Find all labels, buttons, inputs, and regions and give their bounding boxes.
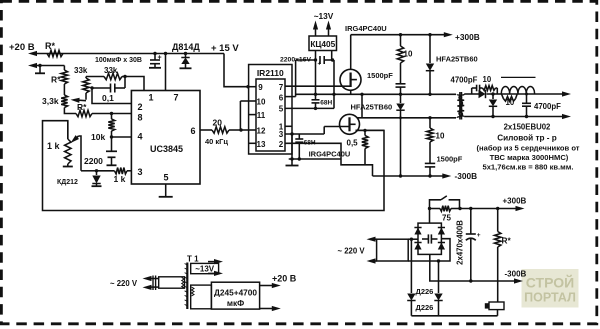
wire output bottom bbox=[464, 116, 564, 118]
T1 winding ~13V box bbox=[191, 263, 219, 273]
wire comp rail bbox=[86, 76, 104, 78]
capacitor 1500pF (lower) bbox=[425, 162, 435, 164]
resistor R* (upper divider) bbox=[63, 66, 65, 71]
svg-text:33k: 33k bbox=[74, 66, 88, 75]
zener Д814Д bbox=[185, 54, 187, 58]
diode Д226 (lower) bbox=[438, 261, 440, 293]
arrow mains N bbox=[375, 260, 377, 262]
transformer TR primary bbox=[457, 95, 462, 117]
ground (Д814Д) bbox=[180, 67, 192, 69]
arrow ~13V out 1 bbox=[208, 261, 217, 263]
arrow ~13V feed right bbox=[328, 27, 330, 36]
svg-text:T 1: T 1 bbox=[187, 255, 199, 264]
svg-text:Д814Д: Д814Д bbox=[172, 42, 200, 52]
svg-text:10: 10 bbox=[257, 98, 266, 107]
pin 10 stub bbox=[240, 100, 256, 102]
svg-text:4700pF: 4700pF bbox=[534, 102, 561, 111]
svg-text:4700pF: 4700pF bbox=[451, 76, 478, 85]
svg-text:3: 3 bbox=[279, 130, 284, 139]
wire secondary top bbox=[464, 93, 478, 95]
capacitor 4700pF (output) bbox=[526, 94, 528, 103]
transformer TR secondary bbox=[459, 95, 464, 116]
wire КЦ405 left leg bbox=[315, 51, 317, 61]
wire +20V out bbox=[260, 285, 273, 287]
svg-text:~13V: ~13V bbox=[314, 11, 334, 21]
transistor Q2 IRG4PC40U bbox=[340, 114, 360, 134]
diode output rectifier 2 bbox=[492, 94, 494, 99]
wire 0V out bbox=[260, 308, 273, 310]
node 75 left bbox=[428, 207, 431, 210]
wire +300V out bbox=[460, 208, 517, 210]
svg-text:2200: 2200 bbox=[84, 156, 103, 166]
node pin9 bbox=[246, 85, 249, 88]
wire HO gate (pin7) bbox=[285, 85, 351, 87]
wire pin3 current sense bbox=[81, 170, 97, 172]
wire VB drop bbox=[315, 60, 317, 94]
svg-text:10: 10 bbox=[436, 132, 445, 141]
diode HFA25TB60 (upper) bbox=[429, 35, 431, 63]
svg-text:100мкФ x 30В: 100мкФ x 30В bbox=[95, 57, 142, 64]
svg-text:HFA25TB60: HFA25TB60 bbox=[351, 103, 393, 112]
node КД212 bbox=[95, 169, 98, 172]
node pin4 bbox=[110, 135, 113, 138]
svg-text:+: + bbox=[477, 232, 481, 239]
wire +15V to UC3845 pin7 bbox=[165, 54, 167, 91]
rectifier block Д245+4700мкФ bbox=[211, 282, 259, 309]
svg-text:20: 20 bbox=[213, 118, 223, 128]
svg-text:ТВС марка 3000НМС): ТВС марка 3000НМС) bbox=[490, 153, 569, 162]
arrow ~13V feed left bbox=[315, 27, 317, 36]
node diode top bbox=[428, 33, 431, 36]
resistor 10 (snubber RC) bbox=[480, 87, 483, 89]
transformer T1 primary bbox=[159, 277, 185, 288]
ground (1 k) bbox=[63, 166, 73, 168]
svg-text:2x150EBU02: 2x150EBU02 bbox=[504, 122, 551, 131]
wire output top line bbox=[502, 93, 565, 95]
svg-text:6: 6 bbox=[190, 126, 195, 136]
svg-text:1500pF: 1500pF bbox=[367, 71, 393, 80]
wire +15V to IR2110 pin9 bbox=[224, 54, 249, 87]
svg-text:СТРОЙ: СТРОЙ bbox=[526, 274, 574, 291]
filter box bbox=[377, 239, 409, 261]
node snubber top bbox=[399, 33, 402, 36]
svg-text:68H: 68H bbox=[320, 100, 332, 107]
svg-text:+20 В: +20 В bbox=[272, 274, 297, 284]
pin 12 stub bbox=[240, 129, 256, 131]
node 75 right bbox=[458, 207, 461, 210]
node shunt top bbox=[363, 129, 366, 132]
arrow mains L bbox=[375, 238, 377, 240]
svg-text:1 k: 1 k bbox=[114, 174, 126, 184]
svg-text:9: 9 bbox=[258, 83, 263, 92]
wire VB from pin6 bbox=[285, 96, 296, 98]
resistor 33k (feedback) bbox=[104, 73, 122, 79]
diode HFA25TB60 (lower) bbox=[400, 94, 402, 103]
svg-text:+ 15 V: + 15 V bbox=[211, 43, 239, 54]
capacitor 1500pF (upper) bbox=[396, 83, 406, 85]
svg-text:7: 7 bbox=[279, 83, 284, 92]
bridge diode bottom-left bbox=[414, 243, 421, 250]
svg-text:R*: R* bbox=[77, 102, 87, 112]
diode Д226 (upper) bbox=[410, 239, 412, 293]
svg-text:1: 1 bbox=[148, 93, 153, 103]
wire VCC drop bbox=[291, 134, 293, 159]
trimmer 1k wiper arrow bbox=[79, 136, 82, 171]
svg-text:40 кГц: 40 кГц bbox=[205, 137, 228, 146]
bridge center capacitor bbox=[422, 238, 428, 240]
svg-text:5: 5 bbox=[279, 105, 284, 114]
node cap right bbox=[331, 58, 334, 61]
wire Q1 collector bbox=[350, 35, 352, 70]
capacitor 100мкФ x 30В bbox=[154, 54, 156, 60]
transformer TR core bbox=[459, 92, 461, 120]
node VCC bbox=[290, 132, 293, 135]
wire precharge bottom bbox=[411, 315, 497, 317]
wire primary-bottom bus bbox=[357, 117, 456, 119]
svg-text:IR2110: IR2110 bbox=[257, 68, 284, 78]
svg-text:10: 10 bbox=[404, 50, 413, 59]
wire output to lower collector bbox=[361, 94, 363, 118]
svg-text:13: 13 bbox=[257, 140, 266, 149]
svg-text:2: 2 bbox=[279, 140, 284, 149]
capacitor 2200 bbox=[111, 137, 113, 151]
resistor R* (to Vref) bbox=[76, 110, 92, 116]
node cap left bbox=[314, 58, 317, 61]
svg-text:~13V: ~13V bbox=[195, 265, 215, 274]
T1 mains bars bbox=[152, 276, 154, 291]
svg-text:+: + bbox=[318, 62, 322, 68]
node Д226 tap 2 bbox=[437, 259, 440, 262]
svg-text:IRG4PC40U: IRG4PC40U bbox=[309, 150, 351, 159]
wire VB right drop bbox=[333, 60, 335, 94]
driver IR2110 inner box bbox=[256, 79, 285, 151]
svg-text:Д245+4700: Д245+4700 bbox=[214, 288, 257, 298]
fuse box bbox=[489, 302, 504, 310]
node HFA bottom bbox=[399, 174, 402, 177]
node pin7 supply junction bbox=[164, 52, 167, 55]
wire AC1 bbox=[408, 238, 418, 240]
svg-text:12: 12 bbox=[257, 127, 266, 136]
svg-text:+300В: +300В bbox=[503, 197, 527, 206]
wire COM line bbox=[289, 158, 341, 160]
pin 13 stub bbox=[249, 142, 256, 144]
svg-text:11: 11 bbox=[257, 111, 266, 120]
resistor 75 (soft start) bbox=[430, 208, 441, 210]
rectifier КЦ405 box bbox=[309, 36, 337, 51]
svg-text:6: 6 bbox=[279, 93, 284, 102]
node output-emitter bbox=[360, 93, 363, 96]
node gnd tap bbox=[38, 64, 41, 67]
node pin6 out bbox=[239, 128, 242, 131]
node diode-output bbox=[428, 93, 431, 96]
node R* top bbox=[496, 207, 499, 210]
svg-text:2x470x400В: 2x470x400В bbox=[455, 220, 464, 265]
svg-text:4: 4 bbox=[137, 132, 142, 142]
svg-text:0,1: 0,1 bbox=[102, 93, 114, 103]
wire КЦ405 right leg bbox=[331, 51, 333, 61]
transformer T1 core bbox=[186, 263, 188, 310]
wire current-sense loop bbox=[43, 121, 385, 211]
trimmer 1 k bbox=[67, 121, 69, 139]
wire pin2 COM bbox=[285, 143, 373, 176]
svg-text:ПОРТАЛ: ПОРТАЛ bbox=[524, 291, 576, 305]
driver U2 IR2110 outer box bbox=[249, 65, 292, 155]
wire VB bus bbox=[296, 93, 456, 95]
resistor 10 (upper snubber) bbox=[400, 35, 402, 46]
svg-text:10: 10 bbox=[483, 75, 492, 84]
wire +300V rail bbox=[351, 34, 445, 36]
svg-text:8: 8 bbox=[137, 113, 142, 123]
wire pin2 feedback bbox=[92, 88, 131, 104]
bridge diode top-right bbox=[438, 228, 445, 235]
svg-text:5: 5 bbox=[163, 173, 168, 183]
resistor R* (series +20V) bbox=[47, 50, 63, 56]
ground (КД212) bbox=[92, 185, 102, 187]
arrow ~13V out 2 bbox=[208, 272, 217, 274]
wire VS from pin5 bbox=[285, 107, 334, 109]
T1 winding secondary box bbox=[191, 285, 212, 309]
node D814D junction bbox=[184, 52, 187, 55]
ground (pin5) bbox=[165, 184, 167, 197]
op-amp U1 UC3845 box bbox=[131, 91, 200, 185]
pot wiper arrow bbox=[76, 99, 86, 102]
svg-text:КЦ405: КЦ405 bbox=[310, 39, 335, 49]
node 100uF junction bbox=[153, 52, 156, 55]
wire +20V rail with left arrow bbox=[33, 53, 62, 55]
svg-text:+20 В: +20 В bbox=[9, 42, 35, 53]
svg-text:~ 220 V: ~ 220 V bbox=[110, 279, 138, 288]
node after diode bbox=[491, 92, 494, 95]
wire -300V rail bbox=[373, 175, 444, 177]
svg-text:UC3845: UC3845 bbox=[150, 144, 183, 154]
svg-text:~ 220 V: ~ 220 V bbox=[338, 247, 366, 256]
ground (COM) bbox=[291, 159, 293, 165]
node cap out top bbox=[525, 93, 528, 96]
svg-text:HFA25TB60: HFA25TB60 bbox=[436, 55, 478, 64]
wire second left arrow bbox=[33, 65, 64, 67]
node COM gnd bbox=[290, 157, 293, 160]
svg-text:мкФ: мкФ bbox=[227, 298, 244, 308]
capacitor 2x470x400В bbox=[470, 209, 472, 234]
capacitor 0,1 bbox=[124, 77, 126, 89]
switch S1 bbox=[430, 200, 442, 209]
node snubber bottom bbox=[428, 174, 431, 177]
node pin8 Vref bbox=[110, 112, 113, 115]
wire pin10-12 tie bbox=[239, 101, 241, 130]
svg-text:10k: 10k bbox=[91, 132, 105, 142]
svg-text:R*: R* bbox=[51, 75, 61, 85]
resistor 1 k (pin3) bbox=[97, 170, 115, 172]
capacitor 68H (bootstrap) bbox=[315, 94, 317, 99]
wire Q2 emitter line bbox=[356, 129, 385, 131]
node VS-68H bbox=[314, 107, 317, 110]
svg-text:10: 10 bbox=[506, 98, 515, 107]
potentiometer 3,3k bbox=[61, 95, 67, 108]
bridge diode top-left bbox=[414, 228, 421, 235]
capacitor 4700pF (snubber) bbox=[471, 88, 473, 94]
wire DC+ riser bbox=[429, 209, 431, 224]
node cap out bottom bbox=[525, 115, 528, 118]
capacitor 2200x16V bbox=[296, 59, 317, 61]
svg-text:3,3k: 3,3k bbox=[42, 96, 59, 106]
svg-text:33k: 33k bbox=[104, 66, 118, 75]
svg-text:КД212: КД212 bbox=[57, 179, 78, 186]
svg-text:R*: R* bbox=[45, 41, 55, 51]
svg-text:0,5: 0,5 bbox=[347, 139, 359, 148]
node primary-bottom tap bbox=[428, 116, 431, 119]
svg-text:Д226: Д226 bbox=[416, 287, 434, 296]
bridge diode bottom-right bbox=[438, 243, 445, 250]
svg-text:R*: R* bbox=[502, 236, 512, 246]
svg-text:75: 75 bbox=[442, 213, 451, 222]
svg-text:+300В: +300В bbox=[455, 32, 480, 42]
node snubber-output bbox=[399, 93, 402, 96]
inductor output choke bbox=[501, 86, 534, 93]
node lower diode mid bbox=[399, 116, 402, 119]
wire 3,3k bottom to R* series bbox=[64, 108, 76, 114]
resistor 0,5 shunt bbox=[364, 130, 366, 135]
transistor Q1 IRG4PC40U bbox=[340, 69, 361, 90]
wire T1 mains leads bbox=[150, 278, 159, 280]
resistor R* (bleeder) bbox=[497, 209, 499, 232]
diode КД212 bbox=[96, 171, 98, 175]
svg-text:3: 3 bbox=[137, 167, 142, 177]
watermark box bbox=[522, 269, 579, 308]
wire Q1 emitter bbox=[350, 91, 352, 95]
node 0,1 left end bbox=[90, 86, 93, 89]
svg-text:1 k: 1 k bbox=[47, 141, 61, 151]
pin 1 stub bbox=[285, 125, 292, 127]
node diode2 bottom bbox=[491, 115, 494, 118]
wire AC2 route bbox=[408, 239, 450, 261]
node Д226 tap 1 bbox=[410, 238, 413, 241]
svg-text:(набор из 5 сердечников от: (набор из 5 сердечников от bbox=[476, 143, 579, 152]
svg-text:5х1,76см.кв = 880 кв.мм.: 5х1,76см.кв = 880 кв.мм. bbox=[482, 163, 573, 172]
pin 11 stub bbox=[249, 114, 256, 116]
node filter cap bottom bbox=[469, 279, 472, 282]
svg-text:IRG4PC40U: IRG4PC40U bbox=[345, 24, 387, 33]
ground (2200) bbox=[107, 164, 117, 166]
node VB-68H bbox=[314, 93, 317, 96]
wire DC- to -300V bbox=[430, 254, 515, 281]
svg-text:1500pF: 1500pF bbox=[437, 155, 463, 164]
svg-text:+: + bbox=[158, 55, 162, 62]
resistor 10k bbox=[111, 114, 113, 120]
wire to UC3845 pin1 bbox=[125, 77, 144, 91]
pin 9 stub bbox=[249, 86, 256, 88]
svg-text:Силовой тр - р: Силовой тр - р bbox=[497, 134, 557, 143]
node comp rail junction bbox=[123, 75, 126, 78]
bridge rectifier box bbox=[418, 223, 441, 254]
node 68H bottom bbox=[298, 157, 301, 160]
wire LO to gate (pin3 line) bbox=[285, 133, 324, 135]
svg-text:-300В: -300В bbox=[505, 270, 527, 279]
capacitor 68H (VCC bypass) bbox=[298, 134, 300, 139]
ground (input tap) bbox=[39, 66, 41, 74]
resistor 33k (vertical) bbox=[85, 77, 87, 79]
svg-text:-300В: -300В bbox=[455, 171, 478, 181]
resistor 10 (choke damp) bbox=[502, 94, 504, 99]
node VB right bbox=[332, 93, 335, 96]
svg-text:2: 2 bbox=[137, 102, 142, 112]
svg-text:7: 7 bbox=[173, 93, 178, 103]
node filter cap top bbox=[469, 207, 472, 210]
resistor 20 (gate drive) bbox=[200, 129, 212, 131]
svg-text:Д226: Д226 bbox=[416, 303, 434, 312]
diode output rectifier bbox=[479, 90, 486, 98]
resistor 10 (lower snubber) bbox=[429, 118, 431, 128]
ground (100uF) bbox=[149, 67, 161, 69]
